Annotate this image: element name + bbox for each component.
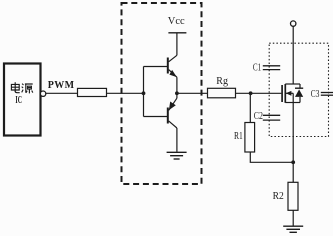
svg-text:PWM: PWM (48, 80, 75, 91)
svg-text:R1: R1 (234, 131, 243, 142)
wire PWM to resistor (46, 92, 78, 94)
resistor R1 (245, 123, 255, 153)
node: PWM output circle (40, 91, 45, 96)
wire R1 bottom to source node (250, 152, 293, 162)
MOSFET parasitic dashed box (269, 43, 328, 136)
wire base of Q1 (144, 66, 168, 68)
Vcc supply bar (168, 32, 186, 34)
wire driver output to Rg (177, 92, 208, 94)
svg-text:C1: C1 (253, 63, 261, 74)
svg-text:Rg: Rg (216, 76, 228, 87)
transistor Q1 (NPN upper) (168, 55, 177, 93)
ground (driver) (167, 152, 187, 159)
wire Rg to gate (236, 92, 282, 94)
label 电 (power) glyph (11, 82, 19, 93)
node: source junction (291, 160, 295, 164)
ground (source) (283, 226, 303, 232)
wire source down through junction to R2 (292, 103, 294, 183)
wire drain (292, 26, 294, 84)
wire R2 to ground (292, 210, 294, 226)
svg-text:IC: IC (15, 95, 22, 106)
svg-text:Vcc: Vcc (168, 16, 185, 27)
resistor R2 (288, 182, 298, 210)
capacitor C1 (263, 66, 280, 70)
transistor Q3 (MOSFET) (282, 84, 303, 103)
svg-text:R2: R2 (273, 191, 284, 202)
body diode D1 (299, 84, 301, 88)
node: driver input junction (142, 91, 146, 95)
capacitor C2 (263, 115, 280, 120)
node: driver output junction (175, 91, 179, 95)
driver stage dashed box (122, 3, 202, 184)
IC U1 box 电源IC (4, 64, 41, 136)
label 源 glyph (22, 84, 33, 94)
resistor R (series gate) (78, 88, 107, 96)
resistor Rg (208, 88, 236, 98)
transistor Q2 (PNP lower) (168, 93, 177, 152)
wire base of Q2 (144, 116, 168, 118)
wire Vcc to Q1 collector (176, 33, 178, 56)
capacitor C3 (321, 93, 333, 96)
svg-text:C3: C3 (311, 89, 320, 100)
svg-text:C2: C2 (254, 111, 263, 122)
wire base bus vertical (143, 67, 145, 117)
node: gate branch junction (249, 91, 253, 95)
wire R1 branch down (249, 93, 251, 122)
wire resistor to driver input node (107, 92, 144, 94)
node: drain terminal circle (291, 21, 296, 26)
